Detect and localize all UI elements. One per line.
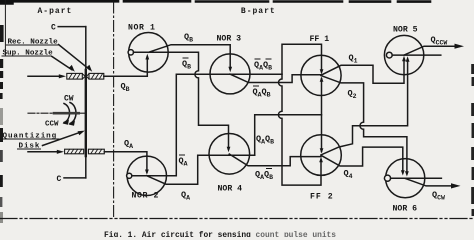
- flip-flop FF2: [301, 135, 342, 176]
- svg-text:C: C: [51, 24, 56, 33]
- pointer arrow quantizing disk: [43, 131, 85, 146]
- wire QA QB control to FF1 and FF2: [320, 77, 324, 154]
- rotation arrow CCW: [69, 103, 77, 126]
- supply nozzle A: [65, 149, 84, 154]
- wire QB nozzle to NOR1 input: [104, 54, 149, 76]
- overbar on QA-bar wire label: [179, 154, 185, 156]
- input arrow channel B: [28, 75, 60, 77]
- receiver nozzle B: [86, 73, 103, 79]
- NOR gate NOR5: [384, 35, 423, 74]
- wire C supply bracket bottom: [64, 177, 86, 179]
- wire QA nozzle to NOR2 input: [104, 152, 149, 175]
- svg-text:CW: CW: [64, 95, 74, 104]
- scan rule left margin: [4, 0, 6, 55]
- output arrow QCCW: [404, 44, 464, 55]
- rotation arrow CW: [63, 104, 70, 125]
- underline Disk: [17, 148, 41, 150]
- wire QA-bar QB-bar trunk to FF1 set and FF2 reset: [278, 44, 323, 185]
- svg-text:FF 2: FF 2: [310, 193, 334, 202]
- svg-text:C: C: [57, 175, 62, 184]
- flip-flop FF1: [301, 55, 341, 95]
- svg-text:NOR 2: NOR 2: [132, 192, 160, 201]
- svg-text:NOR 1: NOR 1: [128, 24, 156, 33]
- A-part/B-part separator dash-dot line: [113, 2, 115, 218]
- underline Quantizing: [2, 138, 60, 140]
- receiver nozzle A: [88, 149, 104, 154]
- svg-text:NOR 4: NOR 4: [218, 185, 243, 194]
- supply nozzle B: [67, 73, 85, 79]
- svg-text:NOR 5: NOR 5: [393, 26, 418, 35]
- NOR gate NOR6: [384, 159, 424, 198]
- underline Rec. Nozzle: [6, 44, 59, 46]
- NOR gate NOR4: [209, 134, 250, 175]
- scan border top edge: [0, 1, 430, 3]
- underline Sup. Nozzle: [2, 55, 53, 57]
- svg-text:NOR 3: NOR 3: [217, 35, 242, 44]
- scan border right edge: [471, 64, 474, 216]
- wire QA QB-bar NOR4 out to FF2 input: [229, 154, 321, 166]
- wire QB-bar NOR1 out to NOR4 control: [134, 52, 231, 152]
- wire QA-bar QB NOR3 out to FF1 input: [230, 74, 321, 82]
- overbar on QB-bar wire label: [183, 57, 189, 59]
- wire QA NOR2 out to NOR4 supply: [147, 155, 255, 184]
- wire QB NOR1 out to NOR3 control: [148, 45, 232, 72]
- svg-text:B-part: B-part: [241, 7, 276, 16]
- NOR gate NOR1: [128, 33, 168, 73]
- wire NOR6 vent stub: [391, 177, 442, 179]
- wire Q4 FF2 out to NOR6 control: [321, 147, 405, 175]
- input arrow channel A: [28, 151, 58, 153]
- wire NOR5 vent stub: [392, 54, 441, 56]
- overbar on QA QB-bar label: [266, 168, 272, 170]
- wire C supply bracket top: [58, 26, 86, 28]
- wire QA-bar NOR2 out to NOR3 supply: [132, 74, 282, 176]
- overbar 2 on QA-bar QB-bar label: [266, 58, 272, 60]
- svg-text:NOR 6: NOR 6: [393, 205, 418, 214]
- output arrow QCW: [405, 178, 460, 188]
- scan border left edge: [0, 25, 4, 223]
- overbar on QA-bar QB label: [253, 85, 259, 87]
- disk axis dash-dot line: [28, 112, 85, 114]
- wire QA QB NOR4 out: [255, 115, 322, 155]
- quantizing disk edge: [85, 27, 87, 178]
- svg-text:Fig. 1. Air circuit for sensi: Fig. 1. Air circuit for sensing count pu…: [104, 231, 336, 237]
- NOR gate NOR3: [210, 54, 250, 94]
- overbar 1 on QA-bar QB-bar label: [255, 58, 261, 60]
- svg-text:CCW: CCW: [45, 121, 59, 129]
- svg-text:A-part: A-part: [38, 7, 73, 16]
- pointer arrow receiver nozzle: [59, 45, 93, 72]
- pointer arrow supply nozzle: [52, 57, 75, 72]
- wire Q2 FF1 out to NOR6 control: [321, 76, 409, 177]
- wire Q1 FF1 out to NOR5 control: [321, 56, 406, 84]
- wire Q3 FF2 out to NOR5 control: [321, 56, 410, 155]
- figure bottom dash-dot rule: [0, 218, 474, 220]
- svg-text:FF 1: FF 1: [310, 35, 330, 44]
- NOR gate NOR2: [127, 156, 167, 195]
